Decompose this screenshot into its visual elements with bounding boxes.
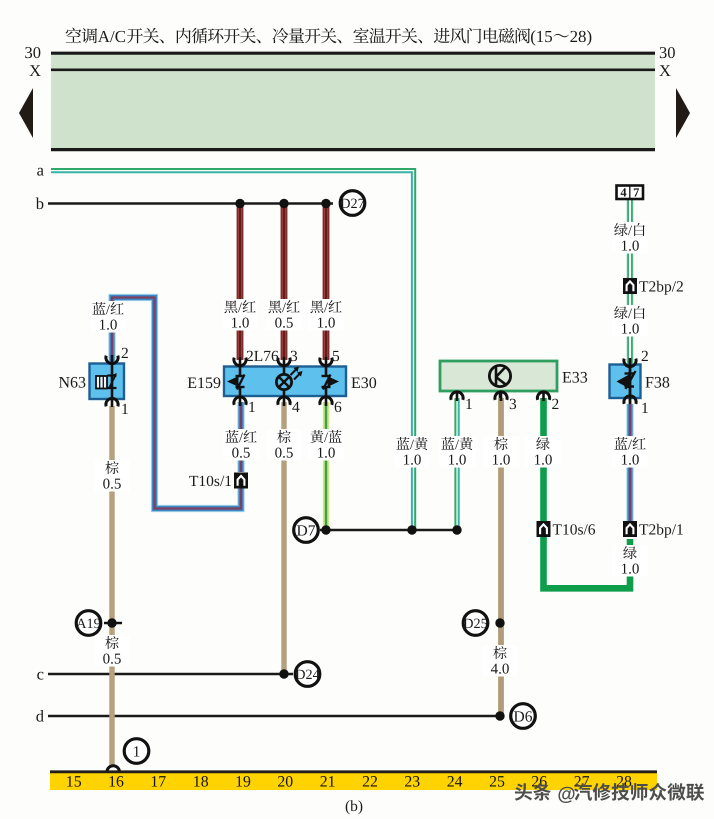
svg-text:4: 4 xyxy=(620,186,627,200)
svg-text:0.5: 0.5 xyxy=(232,446,251,462)
svg-text:/: / xyxy=(628,223,632,239)
svg-text:17: 17 xyxy=(150,774,166,791)
svg-text:E33: E33 xyxy=(562,370,588,387)
svg-text:30: 30 xyxy=(25,43,42,62)
svg-text:/: / xyxy=(282,300,286,316)
svg-text:X: X xyxy=(659,61,671,80)
svg-text:1.0: 1.0 xyxy=(534,453,553,469)
svg-text:1: 1 xyxy=(641,400,649,417)
svg-text:1.0: 1.0 xyxy=(231,316,250,332)
svg-text:/: / xyxy=(106,302,110,318)
svg-text:D6: D6 xyxy=(514,709,533,726)
svg-text:/: / xyxy=(324,300,328,316)
svg-text:3: 3 xyxy=(290,348,298,365)
svg-text:2: 2 xyxy=(121,345,129,362)
svg-text:1.0: 1.0 xyxy=(621,239,640,255)
svg-text:E30: E30 xyxy=(351,375,377,392)
svg-text:d: d xyxy=(36,707,45,726)
svg-text:D7: D7 xyxy=(297,523,316,540)
svg-text:1.0: 1.0 xyxy=(99,318,118,334)
svg-text:T10s/1: T10s/1 xyxy=(189,473,232,490)
svg-text:19: 19 xyxy=(235,774,251,791)
svg-text:2: 2 xyxy=(641,348,649,365)
svg-text:X: X xyxy=(29,61,41,80)
svg-text:1: 1 xyxy=(121,401,129,418)
svg-text:/: / xyxy=(238,300,242,316)
svg-text:21: 21 xyxy=(320,774,336,791)
svg-text:30: 30 xyxy=(659,43,676,62)
svg-text:6: 6 xyxy=(334,399,342,416)
svg-text:4: 4 xyxy=(292,399,300,416)
svg-text:1.0: 1.0 xyxy=(621,562,640,578)
svg-text:F38: F38 xyxy=(645,375,670,392)
svg-text:A/C: A/C xyxy=(98,27,126,46)
svg-text:N63: N63 xyxy=(58,375,86,392)
svg-text:A19: A19 xyxy=(76,616,100,632)
svg-text:D24: D24 xyxy=(295,667,319,683)
svg-text:20: 20 xyxy=(277,774,293,791)
svg-text:b: b xyxy=(36,194,44,213)
svg-text:15: 15 xyxy=(66,774,82,791)
svg-text:28): 28) xyxy=(570,27,593,46)
svg-text:T2bp/1: T2bp/1 xyxy=(639,522,684,539)
svg-text:1.0: 1.0 xyxy=(317,446,336,462)
svg-text:/: / xyxy=(410,437,414,453)
svg-text:4.0: 4.0 xyxy=(491,662,510,678)
svg-text:a: a xyxy=(37,161,45,180)
svg-text:23: 23 xyxy=(404,774,420,791)
svg-text:1: 1 xyxy=(465,396,473,413)
svg-text:(15: (15 xyxy=(530,27,553,46)
svg-text:1.0: 1.0 xyxy=(492,453,511,469)
svg-text:16: 16 xyxy=(108,774,124,791)
svg-text:(b): (b) xyxy=(345,798,363,815)
svg-text:c: c xyxy=(37,665,44,684)
svg-text:T2bp/2: T2bp/2 xyxy=(639,279,684,296)
svg-text:1.0: 1.0 xyxy=(621,322,640,338)
svg-text:3: 3 xyxy=(509,396,517,413)
svg-text:1.0: 1.0 xyxy=(448,453,467,469)
svg-text:T10s/6: T10s/6 xyxy=(553,522,596,539)
svg-text:22: 22 xyxy=(362,774,378,791)
svg-text:1.0: 1.0 xyxy=(403,453,422,469)
svg-text:2: 2 xyxy=(552,396,560,413)
svg-text:0.5: 0.5 xyxy=(275,316,294,332)
svg-text:25: 25 xyxy=(489,774,505,791)
svg-text:/: / xyxy=(628,437,632,453)
svg-text:1: 1 xyxy=(133,744,141,761)
svg-text:1: 1 xyxy=(248,399,256,416)
svg-text:D25: D25 xyxy=(463,616,487,632)
svg-text:24: 24 xyxy=(447,774,463,791)
svg-text:@: @ xyxy=(557,783,575,804)
svg-text:0.5: 0.5 xyxy=(275,446,294,462)
svg-text:0.5: 0.5 xyxy=(103,477,122,493)
svg-text:1.0: 1.0 xyxy=(317,316,336,332)
svg-text:0.5: 0.5 xyxy=(103,652,122,668)
svg-text:E159: E159 xyxy=(187,375,221,392)
svg-text:18: 18 xyxy=(193,774,209,791)
svg-text:5: 5 xyxy=(332,348,340,365)
svg-text:7: 7 xyxy=(633,186,639,200)
svg-text:/: / xyxy=(324,430,328,446)
svg-text:2L76: 2L76 xyxy=(246,348,279,365)
svg-text:/: / xyxy=(239,430,243,446)
svg-text:/: / xyxy=(455,437,459,453)
svg-text:/: / xyxy=(628,306,632,322)
svg-text:1.0: 1.0 xyxy=(621,453,640,469)
svg-text:D27: D27 xyxy=(340,196,364,212)
